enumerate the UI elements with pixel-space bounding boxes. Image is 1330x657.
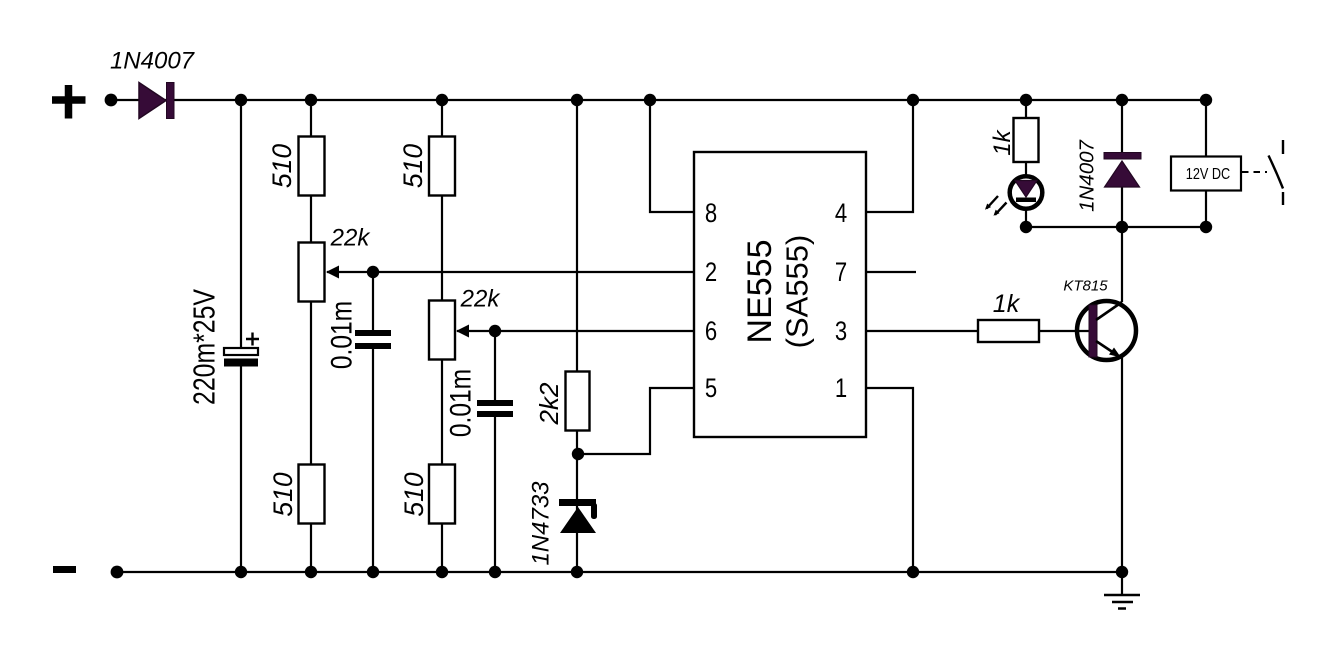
svg-text:(SA555): (SA555)	[780, 235, 815, 349]
node bottom zener	[571, 566, 583, 578]
wire cap C1 branch x373	[372, 272, 374, 572]
node LED relay rail	[1020, 221, 1032, 233]
node pot2 wiper junction	[489, 325, 501, 337]
resistor R5 2k2	[566, 372, 590, 431]
svg-text:8: 8	[705, 199, 717, 229]
svg-text:6: 6	[705, 317, 717, 347]
node rail cap branch	[235, 94, 247, 106]
wire pin6 to pot2 wiper	[457, 330, 694, 332]
svg-text:1: 1	[835, 374, 847, 404]
capacitor C3 220m*25V electrolytic	[224, 348, 258, 367]
node bottom left divider	[305, 566, 317, 578]
resistor R7 1k base	[978, 320, 1039, 342]
svg-text:2: 2	[705, 258, 717, 288]
wire ground stub	[1121, 572, 1123, 595]
node rail pin4	[907, 94, 919, 106]
svg-text:NE555: NE555	[741, 240, 779, 344]
resistor R6 1k vertical	[1014, 118, 1039, 162]
node relay bottom	[1200, 221, 1212, 233]
wire diode D2 branch x1122	[1121, 100, 1123, 302]
node bottom cap branch	[235, 566, 247, 578]
node zener pin5 junction	[572, 448, 584, 460]
node bottom C1	[367, 566, 379, 578]
node rail 2k2 branch	[571, 94, 583, 106]
node bottom right divider	[436, 566, 448, 578]
wire top positive rail	[111, 99, 1206, 101]
wire filter-cap branch x241	[240, 100, 242, 572]
resistor R1 510 top-left	[299, 137, 325, 196]
node rail pin8	[644, 94, 656, 106]
switch contact	[1269, 140, 1284, 205]
node rail right divider	[436, 94, 448, 106]
capacitor C1 0.01m	[355, 330, 391, 349]
wire right divider branch x442	[441, 100, 443, 572]
svg-text:3: 3	[835, 317, 847, 347]
LED VD3	[1010, 176, 1043, 209]
plus terminal	[52, 85, 86, 119]
relay K1 12V DC	[1171, 157, 1241, 191]
wire LED branch x1026	[1025, 100, 1027, 227]
node bottom C2	[489, 566, 501, 578]
wire pin5 to zener node	[578, 388, 694, 454]
potentiometer P2 wiper arrow	[456, 325, 469, 338]
wire pin8 to rail	[650, 100, 694, 212]
node start plus	[105, 94, 118, 107]
resistor R2 510 top-mid	[429, 137, 455, 196]
diode D2 1N4007 flyback	[1104, 153, 1141, 188]
capacitor C2 0.01m	[477, 400, 513, 417]
svg-text:2k2: 2k2	[534, 382, 564, 425]
wire base resistor to transistor	[1039, 330, 1090, 332]
svg-text:220m*25V: 220m*25V	[187, 289, 221, 405]
node rail LED branch	[1020, 94, 1032, 106]
potentiometer P1 wiper arrow	[326, 266, 339, 279]
wire relay branch x1206	[1205, 100, 1207, 227]
svg-text:1N4007: 1N4007	[110, 48, 196, 75]
svg-text:5: 5	[705, 374, 717, 404]
svg-text:1N4733: 1N4733	[528, 481, 555, 566]
svg-text:22k: 22k	[330, 225, 372, 252]
LED light arrows	[985, 196, 1007, 216]
wire pin1 to bottom rail	[866, 388, 913, 572]
svg-text:510: 510	[268, 472, 298, 516]
svg-text:4: 4	[835, 199, 847, 229]
svg-text:510: 510	[399, 472, 429, 516]
wire left divider branch x311	[310, 100, 312, 572]
node diode relay rail	[1116, 221, 1128, 233]
zener VD1 1N4733	[559, 499, 597, 533]
node pot1 wiper junction	[367, 266, 379, 278]
node bottom ground	[1116, 566, 1128, 578]
potentiometer P1 22k body	[299, 243, 325, 302]
svg-text:510: 510	[398, 144, 428, 188]
ground	[1104, 595, 1140, 609]
svg-text:1k: 1k	[989, 128, 1016, 155]
svg-text:0.01m: 0.01m	[324, 301, 358, 369]
svg-text:22k: 22k	[460, 286, 502, 313]
wire pin2 to pot1 wiper	[327, 271, 694, 273]
diode D1 1N4007	[139, 83, 174, 119]
svg-text:KT815: KT815	[1063, 278, 1108, 295]
polarity plus of C3	[246, 333, 259, 346]
minus terminal	[53, 566, 76, 573]
svg-text:510: 510	[267, 144, 297, 188]
wire cap C2 branch x495	[494, 331, 496, 572]
wire pin4 to rail	[866, 100, 913, 212]
svg-text:1N4007: 1N4007	[1076, 138, 1099, 211]
resistor R4 510 bottom-mid	[429, 465, 455, 524]
resistor R3 510 bottom-left	[299, 465, 325, 524]
wire pin7 stub	[866, 271, 916, 273]
svg-text:0.01m: 0.01m	[443, 369, 477, 437]
wire relay bottom rail	[1026, 226, 1206, 228]
transistor Q1 KT815	[1077, 301, 1136, 360]
node bottom pin1	[907, 566, 919, 578]
svg-text:7: 7	[835, 258, 847, 288]
relay actuation dashed link	[1242, 171, 1267, 173]
svg-text:12V DC: 12V DC	[1186, 166, 1230, 183]
node rail left divider	[305, 94, 317, 106]
IC U1 NE555 box	[694, 152, 866, 437]
wire bottom negative rail	[117, 571, 1122, 573]
node start minus	[111, 566, 124, 579]
node rail relay branch	[1200, 94, 1212, 106]
wire emitter to bottom rail	[1121, 357, 1123, 572]
wire 2k2 zener branch x577	[576, 100, 578, 572]
potentiometer P2 22k body	[429, 301, 455, 360]
svg-text:1k: 1k	[993, 290, 1021, 318]
node rail diode branch	[1116, 94, 1128, 106]
wire pin3 to base resistor	[866, 330, 978, 332]
